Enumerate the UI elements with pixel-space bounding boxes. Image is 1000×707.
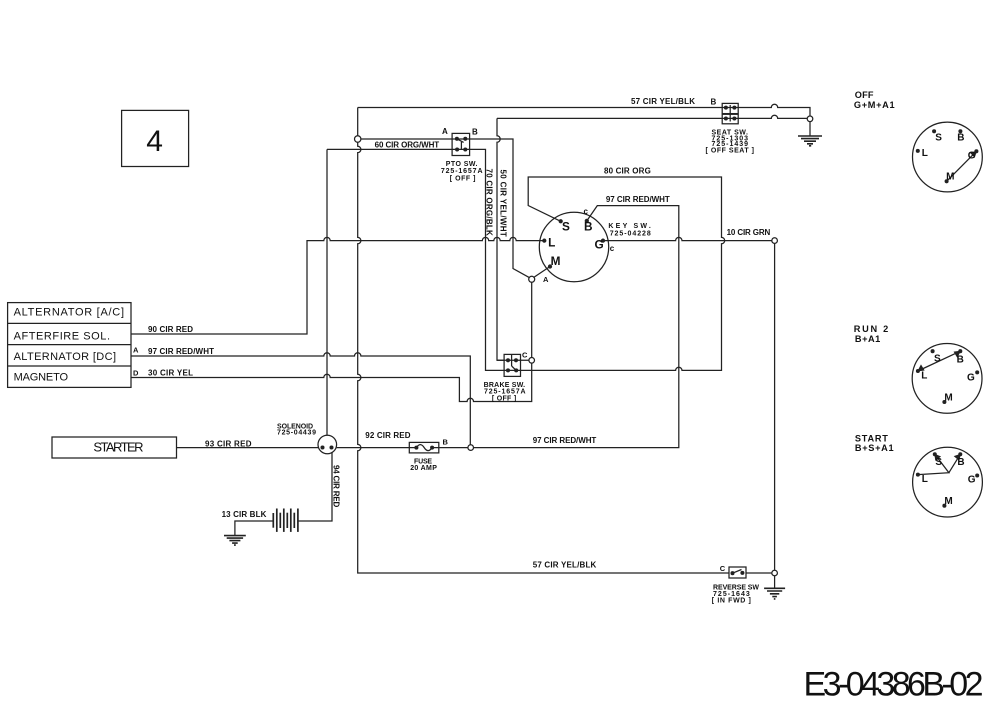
PTO switch PTO SW. 725-1657A (452, 133, 470, 155)
svg-text:60 CIR ORG/WHT: 60 CIR ORG/WHT (375, 140, 440, 149)
svg-text:KEY SW.: KEY SW. (608, 223, 650, 230)
node circle (reverse switch ground junction) (772, 570, 778, 576)
wire 10 CIR GRN from key switch G to node circle right (603, 237, 772, 240)
svg-text:A: A (442, 127, 448, 136)
wire 97 CIR RED/WHT from key switch B down to fuse node B (474, 206, 679, 448)
svg-text:G: G (968, 475, 976, 486)
svg-text:90 CIR RED: 90 CIR RED (148, 325, 193, 334)
svg-text:RUN 2: RUN 2 (854, 324, 888, 334)
svg-text:A: A (543, 275, 549, 284)
svg-text:c: c (610, 244, 615, 253)
svg-text:B: B (957, 457, 964, 468)
svg-text:M: M (944, 496, 952, 507)
wire 92 CIR RED solenoid to fuse (337, 447, 410, 449)
svg-text:97 CIR RED/WHT: 97 CIR RED/WHT (533, 436, 597, 445)
svg-text:[ OFF ]: [ OFF ] (492, 395, 516, 402)
svg-text:c: c (584, 207, 589, 216)
svg-text:97 CIR RED/WHT: 97 CIR RED/WHT (148, 347, 214, 356)
brake switch BRAKE SW. 725-1657A (504, 354, 520, 376)
OFF key position circle (913, 122, 983, 192)
svg-text:B: B (443, 438, 449, 447)
component list boxes: ALTERNATOR (A/C), AFTERFIRE SOL., ALTERNATOR (DC), MAGNETO (8, 303, 131, 388)
node A circle x357 (355, 136, 361, 142)
svg-text:S: S (935, 457, 942, 468)
svg-text:57 CIR YEL/BLK: 57 CIR YEL/BLK (631, 97, 695, 106)
svg-text:97 CIR RED/WHT: 97 CIR RED/WHT (606, 195, 670, 204)
battery (273, 509, 298, 532)
svg-text:M: M (946, 171, 954, 182)
solenoid SOLENOID 725-04439 (318, 435, 337, 454)
svg-text:[ IN FWD ]: [ IN FWD ] (712, 598, 751, 605)
svg-text:ALTERNATOR [A/C]: ALTERNATOR [A/C] (14, 306, 124, 318)
component box labels (14, 306, 124, 383)
svg-text:L: L (548, 236, 555, 250)
wire reverse node to ground (774, 576, 776, 589)
key switch KEY SW. 725-04228 (539, 212, 608, 281)
svg-text:PTO SW.: PTO SW. (446, 161, 478, 168)
svg-text:30 CIR YEL: 30 CIR YEL (148, 369, 193, 378)
page number box 4 (122, 110, 189, 166)
svg-text:57 CIR YEL/BLK: 57 CIR YEL/BLK (533, 561, 597, 570)
svg-text:OFF: OFF (855, 90, 874, 100)
node circle 10 CIR GRN (772, 238, 778, 244)
seat switch SEAT SW. 725-1303 725-1439 (722, 103, 738, 123)
svg-text:4: 4 (146, 125, 163, 158)
wire 70 CIR ORG/BLK PTO bottom-right down to brake switch bottom-left (470, 149, 505, 370)
START key position circle (913, 447, 983, 517)
svg-text:ALTERNATOR [DC]: ALTERNATOR [DC] (14, 351, 116, 363)
svg-text:A: A (133, 346, 139, 355)
wire main vertical x357 from top wire down to bottom 57 CIR YEL/BLK wire (358, 108, 729, 574)
key switch terminal letters (548, 220, 604, 268)
svg-text:C: C (522, 351, 528, 360)
OFF circle letters (922, 132, 976, 182)
svg-text:G: G (967, 372, 975, 383)
wire fuse to node B circle (409, 447, 468, 449)
wire reverse switch to ground node circle (746, 572, 772, 574)
svg-text:M: M (551, 254, 561, 268)
svg-text:10 CIR GRN: 10 CIR GRN (727, 228, 771, 237)
svg-text:STARTER: STARTER (93, 440, 143, 455)
svg-text:G: G (968, 151, 976, 162)
svg-text:94 CIR RED: 94 CIR RED (332, 465, 341, 508)
fuse FUSE 20 AMP (409, 442, 439, 453)
svg-text:80 CIR ORG: 80 CIR ORG (604, 166, 651, 175)
svg-text:13 CIR BLK: 13 CIR BLK (222, 510, 267, 519)
wire 93 CIR RED starter to solenoid (177, 447, 319, 449)
reverse switch REVERSE SW 725-1643 (729, 567, 746, 578)
svg-text:D: D (133, 368, 139, 377)
wire 94 CIR RED solenoid bottom to battery (298, 453, 332, 521)
wire 13 CIR BLK battery to chassis ground (235, 521, 273, 536)
node B circle (fuse output junction) (468, 445, 474, 451)
svg-text:C: C (720, 564, 726, 573)
wire vertical x327 from PTO lower wire to solenoid top (326, 149, 328, 435)
svg-text:[ OFF ]: [ OFF ] (450, 175, 476, 182)
svg-text:S: S (562, 220, 570, 234)
ground (battery) (224, 536, 246, 546)
svg-text:S: S (934, 354, 941, 365)
wire 90 CIR RED from AFTERFIRE SOL box up and right to key switch L (131, 237, 544, 334)
RUN2 circle letters (921, 354, 975, 404)
svg-text:70 CIR ORG/BLK: 70 CIR ORG/BLK (485, 169, 494, 237)
svg-text:L: L (922, 474, 928, 485)
wire key switch A vertical to brake switch C circle (531, 282, 533, 357)
svg-text:725-1657A: 725-1657A (441, 168, 483, 175)
svg-text:B: B (957, 355, 964, 366)
svg-text:50 CIR YEL/WHT: 50 CIR YEL/WHT (498, 170, 507, 237)
svg-text:93 CIR RED: 93 CIR RED (205, 439, 252, 448)
svg-text:L: L (922, 148, 928, 159)
svg-text:MAGNETO: MAGNETO (14, 372, 69, 384)
svg-text:S: S (935, 132, 942, 143)
wire 57 CIR YEL/BLK top: from node column to seat switch and right corner (358, 104, 810, 116)
wire PTO lower contact to solenoid column corner (327, 148, 470, 150)
svg-text:20 AMP: 20 AMP (410, 465, 437, 472)
svg-text:B: B (472, 128, 478, 137)
svg-text:M: M (944, 393, 952, 404)
wire vertical 50 CIR YEL/WHT feed column x497 down to brake switch (497, 118, 504, 360)
svg-text:AFTERFIRE SOL.: AFTERFIRE SOL. (14, 330, 110, 342)
starter box STARTER (52, 437, 177, 458)
svg-text:[ OFF SEAT ]: [ OFF SEAT ] (706, 148, 755, 155)
svg-text:B+A1: B+A1 (855, 334, 880, 344)
svg-text:92 CIR RED: 92 CIR RED (365, 431, 410, 440)
wire brake switch top row to C circle (497, 360, 529, 370)
svg-text:725-04228: 725-04228 (610, 230, 651, 237)
wire key switch M stub to A circle (534, 267, 550, 278)
svg-text:B+S+A1: B+S+A1 (855, 443, 894, 453)
ground (seat switch) (798, 116, 822, 146)
svg-text:B: B (584, 220, 593, 234)
ground (reverse switch) (764, 588, 785, 599)
START circle letters (922, 457, 976, 507)
wire 80 CIR ORG brake switch bottom right up over and to key switch S (521, 177, 725, 370)
node C circle (brake switch connector) (529, 358, 535, 364)
wire vertical 10 CIR GRN column down to reverse switch node (774, 243, 776, 570)
svg-text:B: B (957, 133, 964, 144)
svg-text:L: L (921, 371, 927, 382)
wire 97 CIR RED/WHT from ALTERNATOR DC down to fuse node B (131, 353, 470, 445)
wire 30 CIR YEL from MAGNETO to brake switch C circle column (131, 363, 532, 401)
wire seat switch lower return to ground circle (497, 115, 807, 118)
node A circle (key switch connector) (529, 276, 535, 282)
svg-text:G+M+A1: G+M+A1 (854, 100, 895, 110)
RUN 2 key position circle (912, 344, 982, 414)
wire 60 CIR ORG/WHT from node A circle to PTO switch and down to key switch A (361, 139, 529, 278)
svg-text:725-04439: 725-04439 (277, 429, 316, 436)
svg-text:E3-04386B-02: E3-04386B-02 (804, 666, 984, 704)
svg-text:G: G (595, 237, 604, 251)
svg-text:B: B (711, 98, 717, 107)
